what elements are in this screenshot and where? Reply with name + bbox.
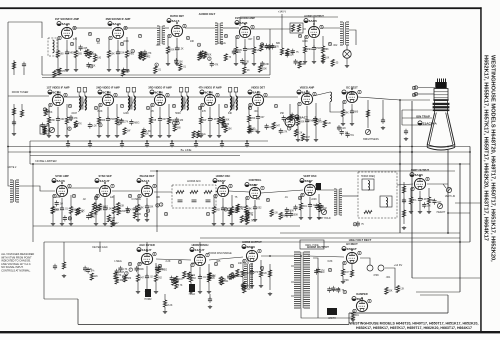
wire T5 tap — [349, 30, 356, 45]
IF transformer T8 — [179, 88, 188, 113]
svg-text:.001: .001 — [317, 122, 322, 124]
ground 1ST SOUND IF AMP 0 — [56, 68, 60, 72]
resistor VIDEO AMP R2 — [314, 119, 317, 126]
junction bus 2 — [121, 140, 123, 142]
capacitor VIDEO AMP C1 — [305, 118, 309, 124]
wire PHASE DET drop0 — [137, 195, 139, 205]
pin VERT OUTPUT b — [426, 177, 429, 181]
resistor HORIZ OSC R0 — [212, 207, 215, 214]
svg-text:WESTINGHOUSE MODELS H648T20, H: WESTINGHOUSE MODELS H648T20, H649T17, H6… — [490, 55, 496, 262]
tube type 12AU7 — [137, 248, 152, 252]
wire B4-T9 — [216, 96, 230, 98]
wire SYNC SEP drop1 — [104, 198, 106, 208]
pin rowB scatter 8 — [274, 104, 277, 108]
pin rowC gap 2 0 — [145, 213, 148, 217]
capacitor agc parts 1 — [83, 266, 87, 272]
svg-text:27K: 27K — [254, 272, 259, 274]
tube type 6CB6 — [150, 90, 163, 94]
wire T3-A3 — [165, 27, 169, 29]
wire bus 141 — [30, 140, 268, 142]
resistor AUDIO OUTPUT R0 — [303, 46, 306, 53]
wire damper d0 — [352, 318, 354, 319]
junction 1ST AUDIO AMP — [244, 23, 246, 25]
pin HV RECT b — [358, 251, 361, 255]
svg-text:HORIZ OSC: HORIZ OSC — [216, 174, 231, 178]
resistor A34 mid 0 — [198, 53, 201, 60]
wire bus 164 — [30, 163, 470, 165]
svg-text:10K: 10K — [238, 262, 243, 265]
junction bus 6 — [221, 140, 223, 142]
resistor VERT OSC R0 — [299, 203, 302, 210]
capacitor A5 mid 2 — [285, 51, 289, 57]
svg-text:+140 V: +140 V — [278, 10, 287, 14]
svg-text:.0047: .0047 — [304, 137, 310, 139]
pin 1ST VIDEO IF AMP b — [64, 93, 67, 97]
svg-text:VIDEO AMP: VIDEO AMP — [300, 86, 315, 90]
wire AFC-C4 — [216, 191, 217, 192]
wire AUDIO OUTPUT d2 — [322, 53, 324, 60]
resistor 4TH VIDEO IF AMP R2 — [217, 117, 220, 124]
wire left vert A — [7, 22, 9, 75]
ground 1ST SOUND IF AMP 2 — [74, 68, 78, 72]
tube 2ND SOUND IF AMP — [112, 27, 123, 38]
wire left stub1 — [13, 60, 15, 75]
svg-text:2.2K: 2.2K — [399, 289, 404, 291]
wire HORIZ OUTPUT drop0 — [242, 260, 244, 270]
tube type 6AU6 — [108, 22, 121, 26]
IF transformer T9 — [228, 88, 237, 113]
svg-text:1K: 1K — [193, 278, 196, 280]
svg-text:8.2K: 8.2K — [298, 132, 303, 134]
pin rowC low 5 1 — [156, 204, 159, 208]
wire vert 44 — [43, 242, 45, 299]
pin rowB low 1 0 — [68, 127, 71, 131]
IF transformer T6 — [77, 88, 86, 113]
capacitor contrast 0 — [346, 132, 350, 138]
wire D3-T13 — [261, 255, 295, 257]
wire SYNC SEP d1 — [104, 212, 106, 222]
ground DC REST c1 — [350, 122, 354, 126]
resistor rowD low 0 0 — [114, 272, 117, 279]
wire row A bus 77 — [42, 77, 270, 79]
resistor SYNC SEP R0 — [94, 207, 97, 214]
svg-text:.047: .047 — [249, 213, 254, 215]
wire 4TH VIDEO IF AMP drop0 — [200, 104, 202, 117]
svg-text:.001: .001 — [254, 110, 259, 113]
pin RATIO DET b — [183, 24, 186, 28]
resistor rowA low 4 1 — [179, 64, 182, 71]
wire crt loop 213 — [448, 212, 470, 214]
resistor rowB low 9 1 — [272, 122, 275, 129]
wire bus 292 — [416, 291, 460, 293]
svg-text:HORIZ DISCHARGE: HORIZ DISCHARGE — [208, 252, 232, 255]
svg-text:15K: 15K — [280, 112, 285, 115]
junction HORIZ OSC — [222, 182, 224, 184]
capacitor VIDEO DET C1 — [256, 114, 260, 120]
svg-text:5%: 5% — [246, 285, 249, 287]
junction PHASE DET — [146, 182, 148, 184]
wire CONTROL d1 — [254, 211, 256, 218]
wire 2ND VIDEO IF AMP drop1 — [107, 107, 109, 119]
pin rowD low 7 0 — [343, 290, 346, 294]
svg-text:NOISE LIMITER: NOISE LIMITER — [35, 159, 56, 163]
svg-text:3.3 MEG: 3.3 MEG — [131, 198, 141, 201]
wire bus 155 — [30, 155, 240, 157]
capacitor 2ND VIDEO IF AMP C1 — [106, 116, 110, 122]
resistor rowB gap 0 0 — [44, 109, 47, 116]
ground HORIZ OUTPUT c1 — [250, 284, 254, 288]
ground HORIZ DISCH c1 — [198, 290, 202, 294]
wire bus stub 3 — [146, 141, 148, 144]
junction 448-233 — [447, 232, 449, 234]
wire SYNC SEP drop2 — [113, 195, 115, 207]
ground VIDEO AMP 2 — [314, 138, 318, 142]
capacitor rowA low 6 0 — [240, 58, 244, 64]
wire A drop 270 — [269, 29, 271, 75]
resistor 1ST SOUND IF AMP R2 — [74, 51, 77, 58]
ground AUDIO OUTPUT c1 — [312, 60, 316, 64]
capacitor PHASE DET C1 — [145, 204, 149, 210]
wire to right border 203 — [455, 202, 481, 204]
svg-text:6.8K: 6.8K — [328, 260, 333, 263]
wire PHASE DET d1 — [146, 210, 148, 218]
wire 4TH VIDEO IF AMP drop1 — [209, 107, 211, 119]
capacitor SYNC SEP C1 — [103, 206, 107, 212]
resistor HORIZ DISCH R0 — [189, 275, 192, 282]
svg-text:4.7K: 4.7K — [249, 221, 254, 223]
pin SYNC AMP a — [53, 194, 56, 198]
capacitor 1ST AUDIO AMP C1 — [243, 46, 247, 52]
ground chain165 — [163, 310, 167, 314]
svg-text:180: 180 — [156, 196, 161, 199]
wire crt lead 1 — [402, 109, 432, 111]
wire drop agc keyer — [146, 242, 148, 252]
resistor 4TH VIDEO IF AMP R0 — [199, 117, 202, 124]
wire 2ND VIDEO IF AMP d1 — [107, 122, 109, 134]
resistor left R6 — [20, 110, 23, 117]
wire bright drop2 — [382, 100, 384, 120]
capacitor B23 1 — [129, 119, 133, 125]
svg-text:B+ LINE: B+ LINE — [181, 148, 192, 152]
pin rowB scatter 3 — [146, 106, 149, 110]
wire SYNC AMP drop0 — [52, 195, 54, 207]
capacitor chain210 — [208, 297, 212, 303]
svg-text:27K: 27K — [202, 110, 207, 113]
svg-text:NOTE 2: NOTE 2 — [8, 166, 17, 169]
wire vert 33 — [32, 164, 34, 242]
capacitor 1ST VIDEO IF AMP C1 — [56, 116, 60, 122]
ground SYNC AMP c1 — [60, 222, 64, 226]
pin rowB scatter 7 — [248, 106, 251, 110]
svg-text:.047: .047 — [298, 62, 303, 64]
svg-text:47K: 47K — [62, 71, 67, 73]
resistor brightness R40 — [366, 110, 369, 117]
ground 3RD VIDEO IF AMP 0 — [149, 134, 153, 138]
pin rowA scatter 8 — [120, 42, 123, 46]
pin rowB scatter 6 — [224, 104, 227, 108]
wire VIDEO AMP drop2 — [315, 103, 317, 119]
ground VERT OUTPUT 2 — [427, 210, 431, 214]
svg-text:6.8K: 6.8K — [146, 131, 151, 133]
resistor D3 screen — [268, 270, 271, 277]
pin rowA scatter 3 — [186, 36, 189, 40]
capacitor AFC C0 — [178, 200, 183, 202]
svg-text:WESTINGHOUSE MODELS H648T20, H: WESTINGHOUSE MODELS H648T20, H649T17, H6… — [350, 321, 479, 325]
tone network box — [290, 23, 303, 33]
tube type 12AU7 — [95, 179, 110, 183]
ground chain404 — [402, 226, 406, 230]
resistor 1ST AUDIO AMP R0 — [234, 47, 237, 54]
wire vert 448 — [447, 150, 449, 233]
resistor A5 mid 1 — [286, 49, 289, 56]
tube 4TH VIDEO IF AMP — [204, 94, 215, 105]
pot vert lin — [446, 187, 451, 192]
svg-text:.005: .005 — [77, 54, 82, 56]
wire flyback tap c — [291, 295, 294, 297]
resistor PHASE DET R0 — [136, 205, 139, 212]
ground HORIZ OSC 2 — [230, 222, 234, 226]
resistor AGC KEYER R0 — [136, 275, 139, 282]
wire 2ND SOUND IF AMP drop2 — [126, 37, 128, 51]
wire 1ST VIDEO IF AMP drop1 — [57, 107, 59, 119]
wire PHASE DET d0 — [137, 212, 139, 219]
junction bus 4 — [171, 140, 173, 142]
ratio det transformer T3 — [157, 26, 165, 44]
resistor rowC gap 1 0 — [111, 220, 114, 227]
wire VERT OUTPUT drop2 — [428, 188, 430, 197]
svg-text:.047: .047 — [139, 278, 144, 280]
ground 4TH VIDEO IF AMP c1 — [208, 134, 212, 138]
svg-text:680: 680 — [276, 42, 281, 45]
capacitor 1ST SOUND IF AMP C1 — [65, 50, 69, 56]
wire VIDEO AMP drop1 — [306, 106, 308, 120]
capacitor rowB gap 1 1 — [279, 128, 283, 134]
svg-text:AUDIO DET: AUDIO DET — [199, 12, 216, 16]
svg-text:560K: 560K — [138, 269, 144, 271]
resistor tone 1 — [291, 25, 294, 32]
wire tuner link to B1 — [8, 95, 49, 97]
svg-text:1K: 1K — [139, 209, 142, 211]
capacitor A45 mid 1 — [267, 44, 271, 50]
resistor DC REST R0 — [341, 110, 344, 117]
wire B+ audio — [281, 14, 283, 48]
wire HORIZ OSC drop1 — [222, 198, 224, 208]
coil L13 — [386, 198, 388, 208]
resistor HORIZ DISCH R2 — [207, 275, 210, 282]
wire damper drop0 — [352, 310, 354, 312]
junction bus cross 7 — [29, 151, 31, 153]
svg-text:2ND SOUND IF AMP: 2ND SOUND IF AMP — [106, 17, 131, 21]
svg-text:8.2K: 8.2K — [98, 110, 103, 113]
top border rule — [0, 7, 482, 9]
pin rowA scatter 5 — [256, 36, 259, 40]
tube type 6CB6 — [48, 90, 61, 94]
capacitor rowC low 8 1 — [293, 205, 297, 211]
wire HV-C88 — [360, 258, 370, 265]
wire 1ST AUDIO AMP d0 — [235, 54, 237, 62]
wire VIDEO DET d1 — [257, 120, 259, 130]
resistor D1 left 1 — [124, 275, 127, 282]
wire bus 233 — [280, 232, 460, 234]
pin AUDIO OUTPUT b — [320, 25, 323, 29]
svg-text:.001: .001 — [354, 315, 359, 317]
wire VERT OSC d1 — [309, 208, 311, 216]
svg-text:.005: .005 — [156, 44, 161, 47]
capacitor under T11 0 — [356, 221, 360, 227]
pin VIDEO DET b — [264, 93, 267, 97]
resistor VIDEO DET R0 — [247, 115, 250, 122]
pin rowA gap 2 0 — [197, 43, 200, 47]
svg-text:6AL5: 6AL5 — [142, 179, 150, 183]
svg-text:.047: .047 — [162, 119, 167, 121]
svg-text:3.3 MEG: 3.3 MEG — [99, 207, 108, 209]
svg-text:220K: 220K — [311, 198, 317, 201]
svg-text:8.2K: 8.2K — [262, 273, 267, 275]
wire bus 238 — [200, 237, 460, 239]
wire 3RD VIDEO IF AMP drop1 — [159, 107, 161, 119]
svg-text:47K: 47K — [78, 124, 83, 126]
svg-text:6AL5: 6AL5 — [172, 19, 180, 23]
wire crt lead 2 — [402, 117, 432, 119]
junction HORIZ OUTPUT — [251, 247, 253, 249]
ground SYNC SEP c1 — [103, 222, 107, 226]
resistor rowA low 8 0 — [298, 61, 301, 68]
wire 2ND SOUND IF AMP drop1 — [117, 40, 119, 52]
wire RATIO DET d0 — [167, 54, 169, 63]
ground 4TH VIDEO IF AMP 2 — [217, 134, 221, 138]
resistor 1ST AUDIO AMP R2 — [252, 47, 255, 54]
wire 1ST SOUND IF AMP d0 — [57, 58, 59, 69]
svg-text:47K: 47K — [73, 118, 78, 120]
wire 4TH VIDEO IF AMP d0 — [200, 124, 202, 134]
svg-text:470K: 470K — [373, 274, 379, 277]
boxed coil L13 — [380, 196, 392, 207]
wire crt return — [420, 294, 448, 296]
wire chain165b — [164, 307, 166, 310]
junction CONTROL — [254, 184, 256, 186]
wire B2-T7 — [114, 96, 128, 98]
pin CONTROL a — [246, 196, 249, 200]
wire 2ND SOUND IF AMP d1 — [117, 56, 119, 68]
svg-text:.047: .047 — [111, 218, 116, 220]
resistor D12 0 — [172, 278, 175, 285]
svg-text:4TH VIDEO IF AMP: 4TH VIDEO IF AMP — [198, 86, 221, 90]
capacitor left C4 — [22, 62, 26, 68]
wire VERT OSC d0 — [300, 210, 302, 216]
svg-text:2.2K: 2.2K — [326, 123, 331, 125]
left margin notes — [1, 253, 34, 273]
svg-text:470K: 470K — [110, 119, 116, 121]
wire left vert to T10 — [8, 152, 10, 186]
junction D3 — [269, 255, 271, 257]
ground HORIZ OUTPUT 0 — [241, 284, 245, 288]
ground DC REST 0 — [341, 122, 345, 126]
svg-text:220K: 220K — [56, 74, 62, 76]
pin SYNC SEP b — [111, 184, 114, 188]
wire vert 470 — [469, 147, 471, 243]
wire C1-C2 — [68, 187, 99, 189]
pin rowA scatter 2 — [138, 34, 141, 38]
capacitor rowD low 6 0 — [314, 269, 318, 275]
junction T13 — [300, 255, 302, 257]
ground AGC KEYER 0 — [136, 290, 140, 294]
CRT type 21ACP4A — [418, 121, 438, 125]
tube type 6W4 — [352, 297, 364, 301]
hv filter cap C88 — [367, 265, 373, 271]
junction bus cross 2 — [447, 146, 449, 148]
svg-text:100K: 100K — [100, 120, 106, 122]
junction 4TH VIDEO IF AMP — [209, 91, 211, 93]
wire VERT OUTPUT d1 — [419, 202, 421, 210]
boxed coil L12 — [362, 179, 374, 190]
svg-text:.0047: .0047 — [118, 272, 124, 274]
junction 1ST SOUND IF AMP — [66, 24, 68, 26]
wire SYNC AMP d1 — [61, 212, 63, 222]
capacitor D23 0 — [227, 274, 231, 280]
tube type 6AV6 — [235, 21, 248, 25]
svg-text:100K: 100K — [293, 215, 299, 217]
junction VIDEO DET — [257, 91, 259, 93]
capacitor VERT OUTPUT C1 — [418, 196, 422, 202]
capacitor rowB low 4 0 — [142, 128, 146, 134]
resistor A12 mid 0 — [94, 55, 97, 62]
svg-text:HORIZ AFC: HORIZ AFC — [187, 179, 201, 183]
wire chain 404 — [403, 182, 405, 224]
capacitor 2ND SOUND IF AMP C1 — [116, 50, 120, 56]
svg-text:SYNC SEP: SYNC SEP — [98, 174, 111, 178]
tube HORIZ OUTPUT — [246, 250, 257, 261]
resistor HV RECT R0 — [341, 269, 344, 276]
tube SYNC SEP — [99, 185, 110, 196]
pin rowB gap 0 1 — [43, 108, 46, 112]
wire SYNC SEP d0 — [95, 214, 97, 223]
resistor damper R0 — [351, 312, 354, 319]
svg-text:.047: .047 — [344, 272, 349, 274]
wire PHASE DET drop1 — [146, 198, 148, 206]
pin rowD scatter 0 — [128, 262, 131, 266]
capacitor agc parts 0 — [86, 267, 90, 273]
svg-text:560K: 560K — [88, 52, 94, 54]
junction SYNC AMP — [61, 182, 63, 184]
capacitor AGC KEYER C1 — [145, 274, 149, 280]
ground chain210 — [208, 305, 212, 309]
capacitor bus 5 — [194, 141, 198, 147]
wire SYNC SEP d2 — [113, 214, 115, 223]
adjust box horiz drive — [144, 289, 152, 301]
resistor B45 1 — [222, 121, 225, 128]
svg-text:VIDEO DET: VIDEO DET — [251, 86, 265, 90]
resistor HORIZ OSC R2 — [230, 207, 233, 214]
wire AGC KEYER drop0 — [137, 263, 139, 275]
ground 4TH VIDEO IF AMP 0 — [199, 134, 203, 138]
resistor AGC KEYER R2 — [154, 275, 157, 282]
junction bus cross 1 — [411, 151, 413, 153]
wire 3RD VIDEO IF AMP drop2 — [168, 104, 170, 117]
wire SYNC SEP drop0 — [95, 195, 97, 207]
pin 2ND VIDEO IF AMP a — [99, 103, 102, 107]
wire to vert lin pot — [443, 184, 446, 188]
wire CONTROL drop0 — [245, 197, 247, 206]
capacitor A34 mid 2 — [198, 51, 202, 57]
svg-text:220K: 220K — [123, 40, 129, 43]
svg-text:27K: 27K — [147, 53, 152, 55]
capacitor B23 0 — [120, 118, 124, 124]
wire vert agc2 — [63, 242, 65, 262]
pin under T11 1 — [353, 222, 356, 226]
ground VERT OSC 2 — [317, 216, 321, 220]
pin VIDEO AMP b — [313, 92, 316, 96]
wire 1ST SOUND IF AMP d2 — [75, 58, 77, 69]
